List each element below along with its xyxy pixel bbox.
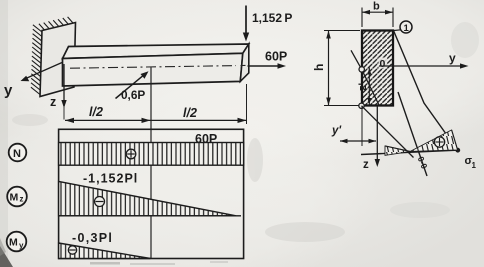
z axis of section xyxy=(363,106,380,171)
sigma1 label xyxy=(465,155,477,170)
svg-text:b: b xyxy=(373,1,380,13)
My diagram xyxy=(59,231,151,259)
sigma1 ordinate xyxy=(452,130,458,150)
svg-text:0: 0 xyxy=(380,58,386,70)
bottom noise specks xyxy=(90,262,120,265)
svg-text:-0,3Pl: -0,3Pl xyxy=(72,231,113,245)
neutral axis 0-0 below section xyxy=(398,92,430,176)
svg-text:y: y xyxy=(4,82,13,99)
centroid label 0 xyxy=(379,58,388,69)
sigma point dot xyxy=(455,148,460,153)
svg-text:z: z xyxy=(363,159,369,171)
svg-text:l/2: l/2 xyxy=(89,105,103,119)
dimension line l/2 l/2 xyxy=(65,119,247,121)
stress diagram baseline xyxy=(361,150,458,154)
negative stress triangle xyxy=(385,146,410,155)
svg-text:-1,152Pl: -1,152Pl xyxy=(83,172,138,186)
force 0.6P xyxy=(116,71,149,102)
svg-text:0,6P: 0,6P xyxy=(121,88,145,102)
svg-text:1,152 P: 1,152 P xyxy=(252,11,292,25)
svg-text:z: z xyxy=(50,95,56,109)
scan mottling xyxy=(12,22,479,242)
extension line mid-span xyxy=(150,68,152,259)
beam end face xyxy=(240,44,249,81)
centerline dash in end face xyxy=(241,64,246,66)
positive stress triangle xyxy=(410,130,458,152)
beam top face xyxy=(63,44,249,59)
svg-text:z': z' xyxy=(357,83,369,92)
beam centerline xyxy=(70,66,236,69)
N diagram xyxy=(59,132,244,165)
diagrams frame box xyxy=(59,129,244,258)
svg-text:h: h xyxy=(312,64,326,71)
svg-text:1: 1 xyxy=(404,23,410,34)
neutral axis line inside section xyxy=(351,50,379,105)
projection line from corner 1 to sigma point xyxy=(394,31,458,151)
circled point 1 xyxy=(394,21,412,34)
y axis of section xyxy=(379,51,469,69)
svg-text:M: M xyxy=(9,237,18,249)
node circle corner 3 xyxy=(359,103,364,108)
y' dimension xyxy=(331,107,376,146)
svg-text:60P: 60P xyxy=(195,132,217,146)
force 60P xyxy=(248,50,288,69)
circled label Mz xyxy=(7,187,27,207)
svg-text:z: z xyxy=(20,195,24,204)
svg-text:y: y xyxy=(449,51,456,65)
extension line beam tip xyxy=(246,84,248,124)
node circle on left edge xyxy=(359,67,364,72)
svg-text:y: y xyxy=(19,241,24,250)
svg-text:M: M xyxy=(10,192,19,204)
svg-text:N: N xyxy=(13,148,21,160)
svg-text:1: 1 xyxy=(472,161,477,170)
Mz diagram xyxy=(59,172,241,216)
force 1.152P xyxy=(243,6,293,42)
circled label My xyxy=(7,232,27,252)
section rectangle xyxy=(362,31,393,106)
corner smudge xyxy=(0,246,13,267)
section h dimension xyxy=(312,31,360,106)
beam front face xyxy=(63,53,243,86)
plus circle in stress diagram xyxy=(434,137,444,147)
section b dimension xyxy=(362,1,393,28)
circled label N xyxy=(9,144,27,162)
y axis xyxy=(4,63,62,100)
wall support xyxy=(40,23,76,97)
projection line from corner 3 xyxy=(362,106,414,158)
svg-text:y': y' xyxy=(331,125,342,137)
z' dimension xyxy=(357,68,371,105)
svg-text:l/2: l/2 xyxy=(183,106,197,120)
z axis xyxy=(50,64,67,120)
stress distribution line xyxy=(385,146,410,152)
svg-text:60P: 60P xyxy=(265,50,287,64)
wall hatching xyxy=(31,17,73,95)
